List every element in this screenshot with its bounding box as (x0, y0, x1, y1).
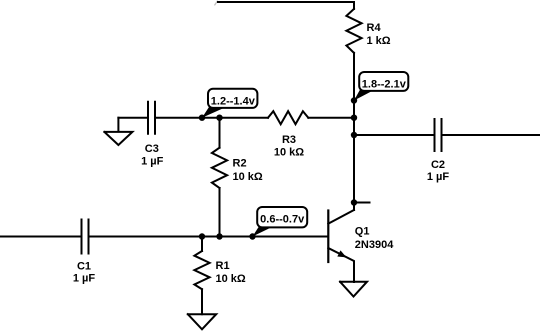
ground at R1 (188, 314, 216, 329)
capacitor C3 (148, 102, 155, 134)
label Q1 (355, 226, 394, 251)
resistor R3 (268, 111, 308, 124)
callout 1.8--2.1v (354, 72, 408, 101)
node collector junction (351, 199, 357, 205)
wire input left (0, 236, 82, 238)
svg-text:10 kΩ: 10 kΩ (233, 171, 263, 183)
label R4 (367, 22, 391, 47)
svg-text:1 µF: 1 µF (141, 155, 164, 167)
svg-text:R3: R3 (282, 134, 296, 146)
callout 1.2--1.4v (202, 89, 257, 118)
svg-text:1 µF: 1 µF (427, 171, 450, 183)
resistor R1 (194, 251, 209, 289)
svg-text:1 µF: 1 µF (73, 273, 96, 285)
wire base node left (C3 to node) (118, 117, 202, 119)
ground at emitter (340, 282, 367, 297)
resistor R4 (346, 9, 361, 53)
node collector annotation anchor (351, 97, 357, 103)
wire R3 to collector (308, 117, 354, 119)
svg-text:R4: R4 (367, 22, 382, 34)
svg-text:1.8--2.1v: 1.8--2.1v (362, 78, 407, 90)
wire C2 left (354, 134, 435, 136)
label C1 (73, 260, 96, 284)
wire R1 bottom (201, 289, 203, 314)
wire VCC top rail (218, 2, 354, 9)
wire collector stub (354, 202, 370, 204)
label R2 (233, 158, 263, 184)
wire input to base (89, 236, 328, 238)
wire C2 output right (442, 134, 540, 136)
svg-text:C1: C1 (77, 260, 91, 272)
svg-text:0.6--0.7v: 0.6--0.7v (260, 213, 305, 225)
svg-text:1.2--1.4v: 1.2--1.4v (211, 96, 256, 108)
ground at C3 (104, 118, 132, 145)
label C2 (427, 159, 450, 183)
node C2 junction (351, 132, 357, 138)
wire R1 top (201, 237, 203, 252)
label R1 (216, 260, 246, 285)
svg-text:R1: R1 (216, 260, 230, 272)
transistor Q1 base bar (327, 211, 329, 263)
svg-text:C3: C3 (145, 143, 159, 155)
resistor R2 (212, 148, 227, 188)
svg-text:10 kΩ: 10 kΩ (216, 273, 246, 285)
svg-text:10 kΩ: 10 kΩ (274, 147, 304, 159)
node R2 bottom junction (216, 233, 222, 239)
wire R2 bottom (219, 188, 221, 237)
capacitor C2 (435, 119, 442, 151)
node base junction (199, 115, 205, 121)
wire R2 top (219, 118, 221, 148)
svg-text:C2: C2 (431, 159, 445, 171)
transistor Q1 emitter lead (328, 248, 354, 282)
label C3 (141, 143, 164, 167)
node R2 top junction (216, 115, 222, 121)
wire VCC arrow remnant (215, 1, 218, 5)
svg-text:Q1: Q1 (355, 226, 370, 238)
callout 0.6--0.7v (253, 207, 308, 237)
capacitor C1 (82, 220, 89, 254)
svg-text:2N3904: 2N3904 (355, 239, 394, 251)
node R3-collector junction (351, 115, 357, 121)
svg-text:1 kΩ: 1 kΩ (367, 35, 391, 47)
node base annotation anchor (249, 233, 255, 239)
wire collector node vertical (353, 53, 355, 210)
node R1 top junction (199, 233, 205, 239)
transistor Q1 collector lead (328, 210, 354, 224)
label R3 (274, 134, 304, 159)
svg-text:R2: R2 (233, 158, 247, 170)
wire base node to R3 (202, 117, 268, 119)
transistor Q1 emitter arrow (337, 250, 346, 257)
